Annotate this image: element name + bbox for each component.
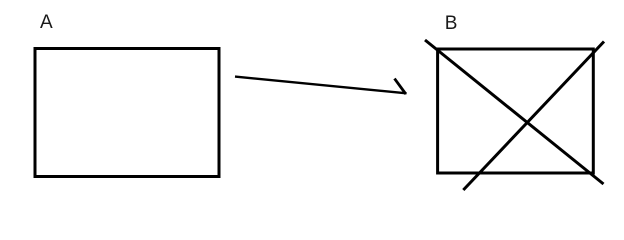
arrow shaft [235, 77, 407, 94]
svg-text:A: A [40, 12, 53, 33]
svg-text:B: B [445, 13, 458, 34]
box A [35, 49, 219, 177]
box B [438, 49, 594, 173]
arrow head [395, 79, 406, 94]
cross stroke 1 [425, 40, 604, 184]
cross stroke 2 [463, 42, 604, 191]
